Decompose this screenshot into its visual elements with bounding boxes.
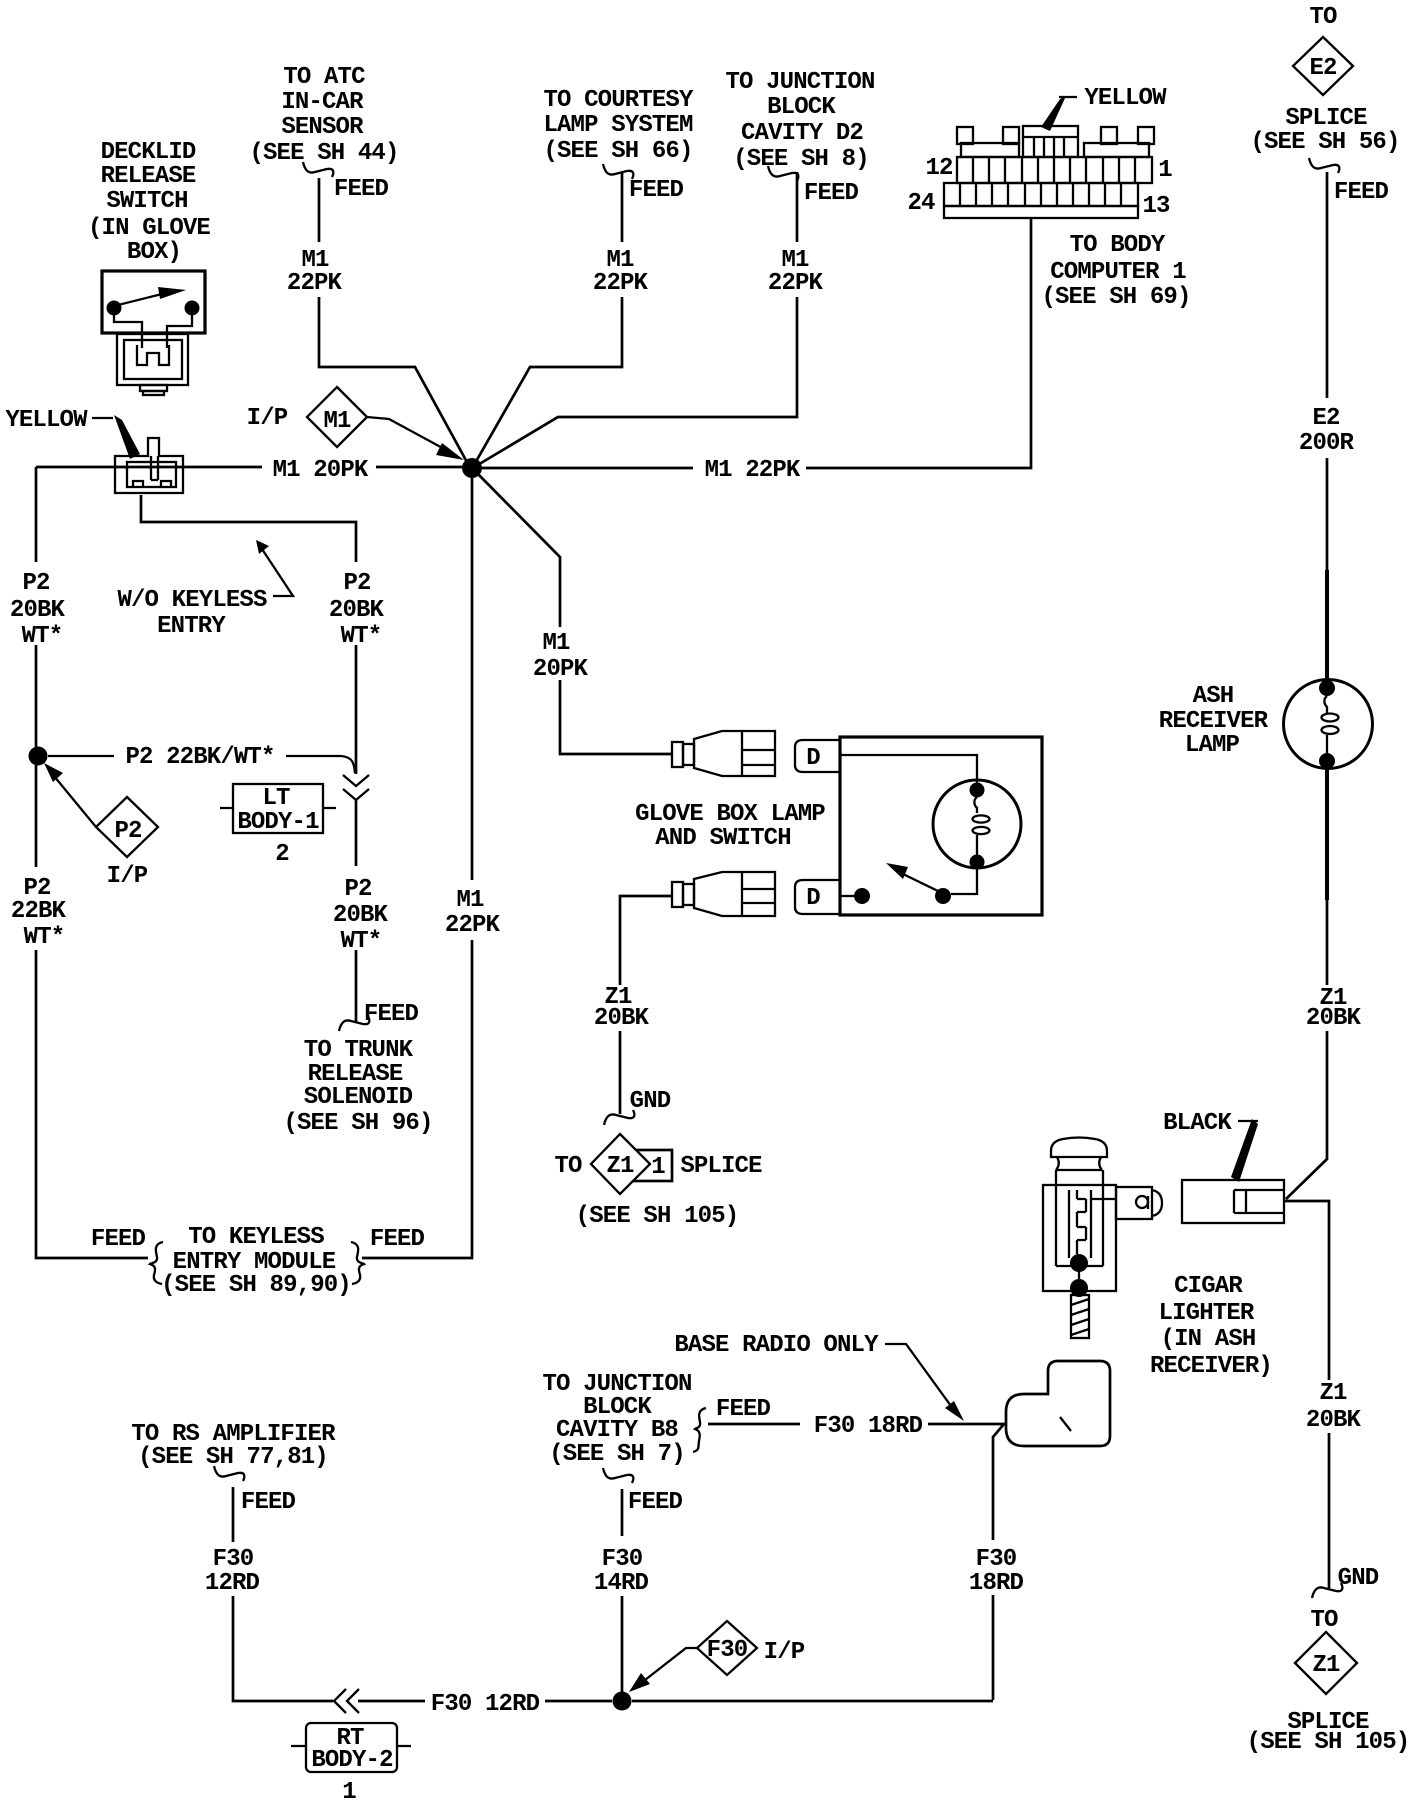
node label TO TRUNK RELEASE SOLENOID: [283, 1037, 432, 1137]
svg-text:Z1: Z1: [606, 1153, 634, 1180]
node label TO KEYLESS ENTRY MODULE: [161, 1224, 351, 1299]
wire F30 to elbow: [632, 1700, 993, 1703]
svg-text:24: 24: [907, 190, 935, 217]
wire F30 12RD: [233, 1487, 612, 1701]
splice pin box (Z1 mid): [630, 1150, 672, 1181]
svg-text:ASH: ASH: [1193, 683, 1234, 710]
svg-text:FEED: FEED: [628, 1489, 683, 1516]
feed hook courtesy: [603, 164, 633, 179]
svg-text:RECEIVER: RECEIVER: [1159, 708, 1269, 735]
svg-text:FEED: FEED: [804, 180, 859, 207]
svg-text:WT*: WT*: [24, 924, 65, 951]
svg-text:TO ATC: TO ATC: [283, 64, 365, 91]
svg-text:I/P: I/P: [107, 863, 148, 890]
svg-text:BLOCK: BLOCK: [767, 94, 836, 121]
svg-text:18RD: 18RD: [969, 1570, 1024, 1597]
svg-text:20PK: 20PK: [533, 656, 589, 683]
svg-text:(SEE SH 7): (SEE SH 7): [549, 1441, 685, 1468]
glove box lamp and switch housing: [840, 737, 1042, 915]
node label DECKLID RELEASE SWITCH: [88, 139, 210, 266]
svg-text:CAVITY B8: CAVITY B8: [556, 1417, 678, 1444]
leader arrow YELLOW to connector: [1059, 96, 1077, 98]
svg-text:(SEE SH 8): (SEE SH 8): [733, 146, 869, 173]
elbow boot (base radio): [1006, 1361, 1110, 1446]
brace right keyless: [351, 1242, 364, 1284]
label P2 20BK WT* (right lower): [333, 876, 389, 955]
connector yellow I/P plug: [115, 438, 183, 493]
splice junction M1: [462, 458, 482, 478]
svg-text:(SEE SH 66): (SEE SH 66): [543, 138, 692, 165]
svg-text:LIGHTER: LIGHTER: [1159, 1300, 1255, 1327]
switch arm arrow: [903, 874, 940, 892]
svg-text:LAMP: LAMP: [1185, 732, 1240, 759]
svg-text:1: 1: [1158, 157, 1172, 184]
fuse box RT BODY-2: [291, 1723, 411, 1772]
leader arrow P2 diamond to splice: [54, 776, 96, 827]
svg-text:LT: LT: [262, 785, 290, 812]
svg-text:22PK: 22PK: [445, 912, 501, 939]
wire lamp bottom to switch: [951, 869, 977, 894]
svg-text:FEED: FEED: [91, 1226, 146, 1253]
svg-text:M1 20PK: M1 20PK: [273, 457, 369, 484]
feed hook trunk release: [339, 1016, 369, 1031]
node label CIGAR LIGHTER: [1150, 1273, 1272, 1380]
svg-text:SENSOR: SENSOR: [281, 114, 364, 141]
svg-text:IN-CAR: IN-CAR: [281, 89, 364, 116]
switch contact dot right: [185, 301, 200, 316]
svg-text:TO: TO: [1309, 4, 1337, 31]
feed hook ATC: [303, 162, 333, 177]
wire Z1 20BK below ash lamp: [1325, 769, 1329, 900]
leader arrow F30 diamond to splice: [645, 1648, 697, 1680]
svg-text:WT*: WT*: [341, 928, 382, 955]
label P2 20BK WT* (right upper): [329, 570, 385, 650]
node label TO JUNCTION BLOCK CAVITY D2: [725, 69, 874, 173]
svg-text:WT*: WT*: [22, 623, 63, 650]
svg-text:F30: F30: [602, 1546, 643, 1573]
svg-text:GND: GND: [630, 1088, 671, 1115]
switch contact dot left: [107, 301, 122, 316]
glove box lamp bulb: [933, 780, 1021, 868]
svg-text:12RD: 12RD: [205, 1570, 260, 1597]
wire Z1 20BK from glove box switch: [620, 896, 672, 1114]
svg-text:14RD: 14RD: [594, 1570, 649, 1597]
wire M1 22PK from body computer down to splice: [482, 218, 1031, 468]
svg-text:M1 22PK: M1 22PK: [705, 457, 801, 484]
switch contacts inside housing: [841, 895, 855, 897]
svg-text:FEED: FEED: [364, 1001, 419, 1028]
decklid switch connector footprint: [117, 334, 188, 395]
svg-text:P2: P2: [343, 570, 370, 597]
svg-text:GLOVE BOX LAMP: GLOVE BOX LAMP: [635, 801, 825, 828]
ash receiver lamp bulb: [1284, 680, 1373, 769]
wire E2 200R: [1326, 172, 1329, 570]
gnd hook (right): [1312, 1583, 1342, 1598]
svg-text:FEED: FEED: [1334, 179, 1389, 206]
leader arrow BLACK to connector: [1238, 1120, 1258, 1122]
splice junction P2: [29, 747, 48, 766]
svg-text:(IN GLOVE: (IN GLOVE: [88, 215, 210, 242]
node label TO JUNCTION BLOCK CAVITY B8 feed lower: [603, 1468, 633, 1483]
svg-text:F30 18RD: F30 18RD: [814, 1413, 923, 1440]
svg-text:M1: M1: [456, 887, 484, 914]
node label TO JUNCTION BLOCK CAVITY B8: [542, 1371, 691, 1468]
svg-text:200R: 200R: [1299, 430, 1355, 457]
connector symbol F30 diamond I/P: [697, 1621, 757, 1675]
svg-text:ENTRY: ENTRY: [157, 613, 226, 640]
wire P2 20BK WT* left branch: [36, 467, 148, 1258]
svg-text:Z1: Z1: [1319, 1380, 1347, 1407]
svg-text:20BK: 20BK: [1306, 1407, 1362, 1434]
svg-text:P2: P2: [22, 570, 49, 597]
node label TO BODY COMPUTER 1: [1041, 232, 1190, 311]
svg-text:12: 12: [925, 155, 952, 182]
svg-text:AND SWITCH: AND SWITCH: [655, 825, 791, 852]
svg-text:20BK: 20BK: [333, 902, 389, 929]
svg-text:I/P: I/P: [764, 1639, 805, 1666]
leader arrow YELLOW to I/P connector: [92, 417, 113, 419]
svg-text:TO: TO: [554, 1153, 582, 1180]
svg-text:YELLOW: YELLOW: [5, 407, 88, 434]
svg-text:FEED: FEED: [716, 1396, 771, 1423]
leader arrow BASE RADIO ONLY: [885, 1344, 951, 1406]
wire F30 18RD to cigar lighter: [708, 1424, 1004, 1700]
terminal D upper: [795, 740, 841, 772]
label ASH RECEIVER LAMP: [1159, 683, 1269, 759]
inline connector chevrons F30: [334, 1689, 359, 1713]
svg-text:(SEE SH 105): (SEE SH 105): [1247, 1729, 1410, 1756]
svg-text:1: 1: [651, 1154, 665, 1181]
connector symbol Z1 diamond (bottom right): [1295, 1632, 1357, 1694]
svg-text:P2: P2: [114, 818, 141, 845]
wire F30 14RD: [621, 1489, 624, 1692]
svg-text:SOLENOID: SOLENOID: [304, 1084, 413, 1111]
svg-text:CAVITY D2: CAVITY D2: [741, 120, 863, 147]
svg-text:(SEE SH 89,90): (SEE SH 89,90): [161, 1272, 351, 1299]
wire M1 22PK from ATC sensor to splice: [319, 178, 468, 464]
connector symbol M1 diamond I/P: [307, 387, 367, 447]
cigar lighter contact dots: [1070, 1254, 1088, 1272]
feed hook D2: [768, 166, 798, 181]
svg-text:BODY-1: BODY-1: [237, 809, 319, 836]
svg-text:I/P: I/P: [247, 405, 288, 432]
wire P2 22BK/WT* leader: [48, 756, 355, 773]
connector symbol Z1 diamond (mid): [591, 1134, 650, 1194]
decklid release switch S1 box: [102, 271, 205, 333]
svg-text:RECEIVER): RECEIVER): [1150, 1353, 1272, 1380]
svg-text:SPLICE: SPLICE: [680, 1153, 762, 1180]
wire Z1 20BK below black connector: [1285, 1201, 1329, 1588]
svg-text:BASE RADIO ONLY: BASE RADIO ONLY: [674, 1332, 879, 1359]
wire lamp top inside housing: [841, 755, 977, 783]
cigar lighter screw: [1071, 1295, 1089, 1338]
svg-text:E2: E2: [1309, 55, 1336, 82]
svg-text:22PK: 22PK: [593, 270, 649, 297]
svg-text:TO TRUNK: TO TRUNK: [304, 1037, 414, 1064]
svg-text:F30: F30: [213, 1546, 254, 1573]
leader arrow M1 diamond to splice: [367, 417, 448, 451]
inline connector chevrons: [343, 775, 369, 800]
svg-text:F30 12RD: F30 12RD: [431, 1691, 540, 1718]
svg-text:P2: P2: [344, 876, 371, 903]
svg-text:W/O KEYLESS: W/O KEYLESS: [117, 587, 267, 614]
connector symbol E2 diamond: [1293, 37, 1353, 95]
fuse box LT BODY-1: [220, 784, 336, 833]
svg-text:P2 22BK/WT*: P2 22BK/WT*: [125, 744, 274, 771]
svg-text:SWITCH: SWITCH: [106, 188, 187, 215]
feed hook RS amplifier: [214, 1466, 244, 1481]
svg-text:FEED: FEED: [629, 177, 684, 204]
svg-text:TO KEYLESS: TO KEYLESS: [188, 1224, 324, 1251]
svg-text:(SEE SH 56): (SEE SH 56): [1250, 129, 1399, 156]
svg-text:GND: GND: [1338, 1565, 1379, 1592]
svg-text:FEED: FEED: [370, 1226, 425, 1253]
svg-text:20BK: 20BK: [1306, 1005, 1362, 1032]
svg-text:COMPUTER 1: COMPUTER 1: [1050, 259, 1186, 286]
wire P2 20BK WT* right branch (w/o keyless entry): [141, 495, 356, 1022]
svg-text:(SEE SH 44): (SEE SH 44): [249, 140, 398, 167]
brace left keyless: [150, 1242, 163, 1284]
svg-text:TO JUNCTION: TO JUNCTION: [725, 69, 874, 96]
feed hook E2: [1309, 158, 1339, 173]
node label TO ATC IN-CAR SENSOR: [249, 64, 398, 167]
svg-text:2: 2: [275, 841, 289, 868]
terminal D lower: [795, 880, 841, 914]
wire M1 20PK horizontal: [36, 466, 466, 469]
svg-text:FEED: FEED: [241, 1489, 296, 1516]
svg-text:YELLOW: YELLOW: [1084, 85, 1167, 112]
wires from switch contacts into connector: [114, 315, 192, 348]
svg-text:(IN ASH: (IN ASH: [1161, 1326, 1256, 1353]
svg-text:M1: M1: [323, 408, 351, 435]
svg-text:BODY-2: BODY-2: [311, 1747, 392, 1774]
svg-text:1: 1: [342, 1779, 356, 1806]
svg-text:(SEE SH 69): (SEE SH 69): [1041, 284, 1190, 311]
label P2 20BK WT* (left upper): [10, 570, 66, 650]
svg-text:20BK: 20BK: [594, 1005, 650, 1032]
svg-text:CIGAR: CIGAR: [1174, 1273, 1243, 1300]
svg-text:RELEASE: RELEASE: [101, 163, 196, 190]
svg-text:WT*: WT*: [341, 623, 382, 650]
wire M1 20PK to glove box lamp: [476, 472, 672, 754]
leader arrow W/O KEYLESS to wire: [262, 549, 293, 596]
svg-text:DECKLID: DECKLID: [101, 139, 196, 166]
brace B8 feed: [693, 1408, 706, 1452]
svg-text:LAMP SYSTEM: LAMP SYSTEM: [543, 112, 693, 139]
svg-text:SPLICE: SPLICE: [1285, 105, 1367, 132]
svg-text:(SEE SH 105): (SEE SH 105): [576, 1203, 739, 1230]
svg-text:TO BODY: TO BODY: [1070, 232, 1166, 259]
terminal spade upper: [672, 731, 775, 776]
svg-text:Z1: Z1: [1312, 1652, 1340, 1679]
wire M1 22PK from courtesy lamp to splice: [474, 172, 622, 465]
switch arm arrow: [114, 294, 162, 306]
svg-text:FEED: FEED: [334, 176, 389, 203]
svg-text:(SEE SH 96): (SEE SH 96): [283, 1110, 432, 1137]
svg-text:20BK: 20BK: [329, 597, 385, 624]
connector black (cigar lighter): [1182, 1180, 1284, 1223]
svg-text:TO: TO: [1310, 1607, 1338, 1634]
cigar lighter assembly: [1043, 1138, 1162, 1292]
wire M1 22PK to keyless entry module: [362, 478, 472, 1258]
svg-text:TO COURTESY: TO COURTESY: [543, 87, 694, 114]
splice junction F30: [613, 1692, 632, 1711]
svg-text:22PK: 22PK: [287, 270, 343, 297]
gnd hook (glove box): [604, 1110, 634, 1125]
svg-text:20BK: 20BK: [10, 597, 66, 624]
svg-text:F30: F30: [707, 1637, 748, 1664]
svg-text:F30: F30: [976, 1546, 1017, 1573]
svg-text:22PK: 22PK: [768, 270, 824, 297]
wire M1 22PK from junction block D2 to splice: [476, 172, 797, 466]
label P2 22BK WT* (left lower): [11, 875, 67, 951]
svg-text:BOX): BOX): [127, 239, 181, 266]
svg-text:22BK: 22BK: [11, 898, 67, 925]
connector C1 body computer 24-way: [944, 126, 1154, 218]
svg-text:BLACK: BLACK: [1163, 1110, 1232, 1137]
svg-text:E2: E2: [1312, 405, 1339, 432]
svg-text:13: 13: [1142, 193, 1170, 220]
terminal spade lower: [672, 872, 775, 916]
node label TO COURTESY LAMP SYSTEM: [543, 87, 694, 165]
svg-text:D: D: [806, 745, 820, 772]
svg-text:D: D: [806, 885, 820, 912]
svg-text:(SEE SH 77,81): (SEE SH 77,81): [138, 1444, 328, 1471]
svg-text:M1: M1: [542, 630, 570, 657]
connector symbol P2 diamond I/P: [96, 797, 158, 857]
